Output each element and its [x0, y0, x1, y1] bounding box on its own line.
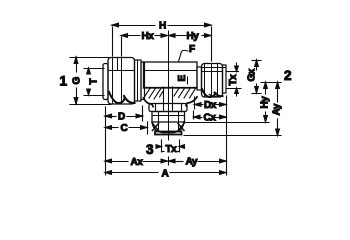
- right nut step: [197, 67, 202, 90]
- svg-text:Gx: Gx: [247, 68, 258, 81]
- dimension Hx: [121, 34, 168, 56]
- svg-text:A: A: [162, 169, 169, 180]
- dimension C: [105, 122, 148, 134]
- svg-text:Tx: Tx: [166, 144, 178, 155]
- svg-text:H: H: [159, 21, 166, 32]
- svg-text:Ay: Ay: [272, 103, 283, 115]
- dimension D: [105, 106, 143, 121]
- right nut face: [223, 65, 227, 93]
- svg-text:Ax: Ax: [131, 157, 144, 168]
- left nut nose: [103, 64, 108, 100]
- svg-text:3: 3: [146, 142, 154, 157]
- body bore tick: [187, 77, 189, 84]
- dimension H: [112, 23, 212, 61]
- svg-text:Cx: Cx: [204, 113, 217, 124]
- leader F: [179, 50, 189, 61]
- svg-text:2: 2: [284, 68, 292, 83]
- dimension Hy right: [184, 82, 281, 123]
- svg-text:Hy: Hy: [260, 96, 271, 109]
- svg-text:Dx: Dx: [204, 100, 217, 111]
- dimension Cx: [194, 111, 227, 119]
- left nut collar: [141, 62, 145, 100]
- body hatched section: [144, 87, 198, 110]
- dimension Tx right: [226, 63, 241, 96]
- right nut hex: [202, 64, 227, 98]
- dimension Ay right: [184, 82, 281, 136]
- dimension Hy top: [169, 34, 212, 38]
- dimension Gx: [252, 60, 261, 94]
- svg-text:Hy: Hy: [187, 31, 200, 42]
- dimension Tx bottom: [156, 140, 185, 152]
- extension line right end: [226, 96, 228, 175]
- svg-text:1: 1: [60, 74, 68, 89]
- svg-text:E: E: [177, 75, 188, 82]
- dimension Dx: [195, 97, 227, 109]
- svg-text:T: T: [89, 79, 100, 85]
- left nut hex: [108, 58, 135, 105]
- dimension Ay bottom: [169, 159, 227, 163]
- left nut back section: [135, 60, 142, 101]
- body center block: [144, 62, 198, 88]
- svg-text:G: G: [72, 77, 83, 85]
- dimension G: [70, 57, 111, 105]
- svg-text:Ay: Ay: [186, 157, 198, 168]
- svg-text:D: D: [118, 112, 125, 123]
- bottom nut hex: [152, 112, 185, 133]
- dimension A: [105, 171, 226, 175]
- svg-text:Tx: Tx: [228, 74, 239, 86]
- centerline branch: [168, 31, 170, 140]
- svg-text:Hx: Hx: [142, 31, 155, 42]
- dimension Ax: [105, 157, 169, 165]
- extension line left end: [105, 107, 107, 175]
- svg-text:F: F: [189, 44, 195, 55]
- bottom nut end face: [155, 132, 182, 135]
- dimension T: [84, 68, 104, 96]
- bottom nut collar: [149, 104, 187, 112]
- svg-text:C: C: [121, 123, 128, 134]
